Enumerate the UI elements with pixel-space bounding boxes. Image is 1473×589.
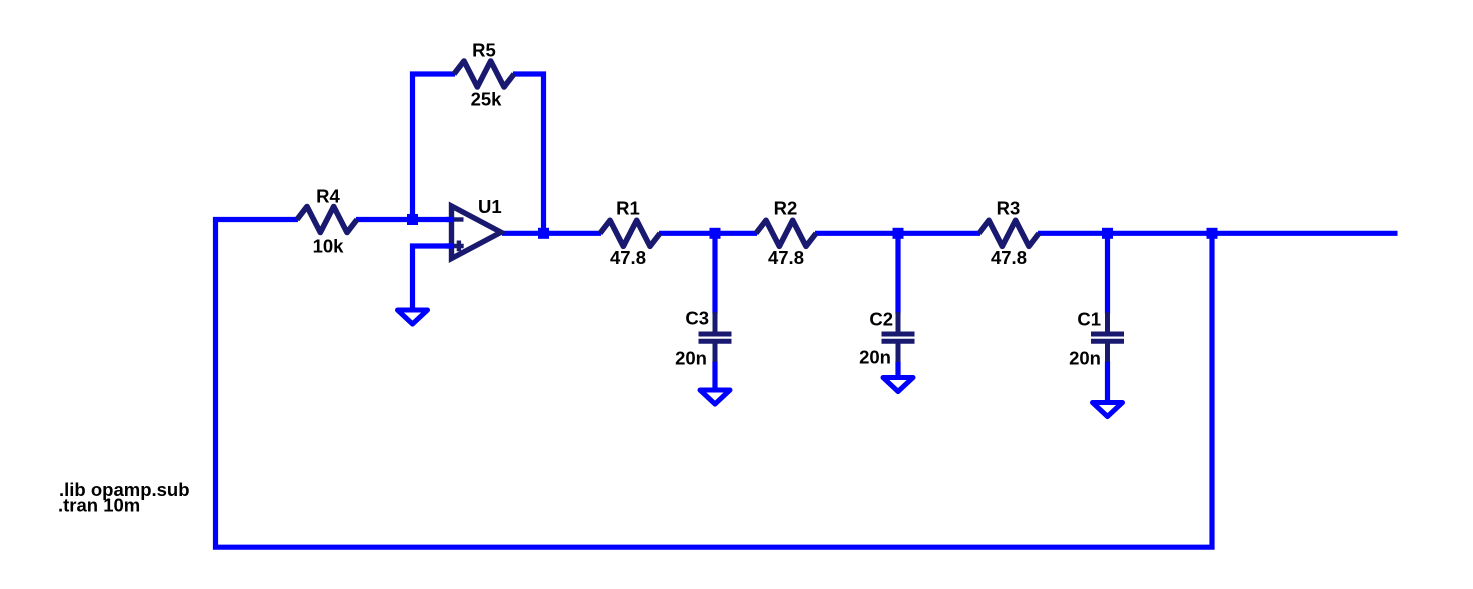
svg-text:C3: C3 — [685, 308, 709, 329]
svg-text:R5: R5 — [472, 40, 496, 61]
svg-text:R3: R3 — [997, 198, 1021, 219]
svg-text:20n: 20n — [1069, 348, 1101, 369]
svg-text:20n: 20n — [675, 348, 707, 369]
svg-text:R2: R2 — [774, 198, 798, 219]
svg-text:47.8: 47.8 — [768, 247, 804, 268]
svg-text:U1: U1 — [478, 196, 502, 217]
svg-text:25k: 25k — [471, 89, 503, 110]
svg-text:R4: R4 — [316, 185, 340, 206]
svg-text:.tran 10m: .tran 10m — [58, 495, 140, 516]
svg-text:C2: C2 — [869, 309, 893, 330]
svg-text:20n: 20n — [859, 347, 891, 368]
svg-text:47.8: 47.8 — [610, 247, 646, 268]
svg-text:R1: R1 — [616, 198, 640, 219]
svg-text:47.8: 47.8 — [991, 247, 1027, 268]
svg-text:10k: 10k — [313, 235, 345, 256]
svg-text:C1: C1 — [1077, 309, 1101, 330]
